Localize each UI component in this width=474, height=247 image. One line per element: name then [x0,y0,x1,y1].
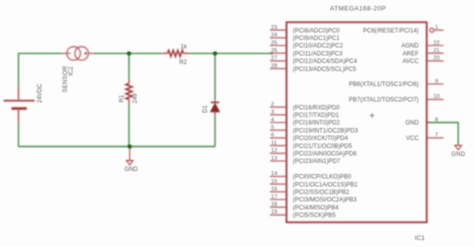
op-amp/IC U: ATMEGA168-20P IC1 body [287,22,427,222]
wire node B down to D1 cathode [214,53,216,100]
wire R2 to IC pin 26 (through node B) [190,52,273,54]
pin 17 (PCI3/MOSI/OC2A)PB3 [270,194,357,203]
svg-text:16: 16 [271,187,277,193]
svg-text:14: 14 [271,171,277,177]
svg-text:24VDC: 24VDC [38,83,44,103]
pin 14 (PCI0/ICP/CLKO)PB0 [270,171,352,180]
svg-text:ATMEGA168-20P: ATMEGA168-20P [330,6,386,13]
diode D1 [211,100,220,115]
pin 26 (PCI11/ADC3)PC3 [270,48,343,57]
svg-text:(PCI8/ADC0)PC0: (PCI8/ADC0)PC0 [293,28,340,34]
svg-text:(PCI13/ADC5/SCL)PC5: (PCI13/ADC5/SCL)PC5 [293,67,357,73]
part origin cross [370,113,374,117]
battery 24VDC [4,86,35,124]
svg-text:R2: R2 [179,60,187,66]
svg-text:(PCI17/TXD)PD1: (PCI17/TXD)PD1 [293,113,340,119]
svg-text:PB6(XTAL1/TOSC1/PCI6): PB6(XTAL1/TOSC1/PCI6) [349,82,419,88]
svg-text:GND: GND [405,121,419,127]
pin 25 (PCI10/ADC2)PC2 [270,40,344,49]
pin 6 (PCI20/XCK/T0)PD4 [270,133,349,142]
pin 7 VCC [406,133,443,142]
pin 28 (PCI13/ADC5/SCL)PC5 [270,63,357,72]
svg-text:19: 19 [271,210,277,216]
pin 18 (PCI4/MISO)PB4 [270,202,339,211]
svg-text:24: 24 [271,33,277,39]
pin 10 PB7(XTAL2/TOSC2/PCI7) [349,94,444,103]
svg-text:VCC: VCC [406,136,419,142]
svg-text:(PCI9/ADC1)PC1: (PCI9/ADC1)PC1 [293,36,340,42]
pin 21 AREF [403,48,444,57]
svg-text:11: 11 [271,140,277,146]
svg-text:(PCI23/AIN1)PD7: (PCI23/AIN1)PD7 [293,159,341,165]
wire battery+ to sensor- [19,53,62,86]
pin 15 (PCI1/OC1A/OC1S)PB1 [270,179,358,188]
svg-text:AREF: AREF [403,51,419,57]
svg-text:5: 5 [271,125,274,131]
resistor R1 [126,79,132,104]
pin 13 (PCI23/AIN1)PD7 [270,156,341,165]
svg-text:3: 3 [271,110,274,116]
svg-text:(PCI20/XCK/T0)PD4: (PCI20/XCK/T0)PD4 [293,136,349,142]
svg-text:GND: GND [124,167,138,173]
svg-text:(PCI2/SS/OC1B)PB2: (PCI2/SS/OC1B)PB2 [293,190,350,196]
pin 20 AVCC [402,56,443,65]
pin 11 (PCI21/T1/OC0B)PD5 [270,140,353,149]
svg-text:AGND: AGND [401,44,419,50]
wire R1 bottom to bottom rail [128,104,130,147]
svg-text:(PCI18/INT0)PD2: (PCI18/INT0)PD2 [293,121,341,127]
svg-text:10: 10 [433,94,439,100]
svg-text:249: 249 [133,93,139,104]
pin 9 PB6(XTAL1/TOSC1/PCI6) [349,79,444,88]
svg-text:7: 7 [435,133,438,139]
svg-text:17: 17 [271,194,277,200]
svg-text:27: 27 [271,56,277,62]
svg-text:(PCI10/ADC2)PC2: (PCI10/ADC2)PC2 [293,44,344,50]
svg-text:PB7(XTAL2/TOSC2/PCI7): PB7(XTAL2/TOSC2/PCI7) [349,98,419,104]
svg-text:26: 26 [271,48,277,54]
svg-text:PC6(/RESET/PCI14): PC6(/RESET/PCI14) [363,28,419,34]
svg-text:18: 18 [271,202,277,208]
svg-text:(PCI5/SCK)PB5: (PCI5/SCK)PB5 [293,213,336,219]
svg-text:IC1: IC1 [415,235,426,242]
pin 23 (PCI8/ADC0)PC0 [270,25,340,34]
pin 19 (PCI5/SCK)PB5 [270,210,336,219]
resistor R2 [162,50,190,56]
pin 2 (PCI16/RXD)PD0 [270,102,340,111]
svg-text:(PCI1/OC1A/OC1S)PB1: (PCI1/OC1A/OC1S)PB1 [293,182,358,188]
svg-text:13: 13 [271,156,277,162]
pin 5 (PCI19/INT1/OC2B)PD3 [270,125,359,134]
svg-text:1: 1 [435,25,438,31]
node B (junction D1/top rail) [213,51,217,55]
pin 1 PC6(/RESET/PCI14) [363,25,443,34]
svg-text:R1: R1 [119,94,125,102]
svg-text:20: 20 [433,56,439,62]
svg-text:2: 2 [271,102,274,108]
wire D1 anode down to bottom rail [214,115,216,147]
svg-text:4: 4 [271,117,274,123]
svg-text:23: 23 [271,25,277,31]
pin 4 (PCI18/INT0)PD2 [270,117,341,126]
svg-text:IC2: IC2 [69,66,75,76]
pin 27 (PCI12/ADC4/SDA)PC4 [270,56,358,65]
pin 24 (PCI9/ADC1)PC1 [270,33,340,42]
ground (IC pin 8 GND) [455,145,462,149]
sensor IC2 (current source, two overlapping circles) [62,47,94,61]
svg-text:(PCI19/INT1/OC2B)PD3: (PCI19/INT1/OC2B)PD3 [293,128,359,134]
svg-text:(PCI3/MOSI/OC2A)PB3: (PCI3/MOSI/OC2A)PB3 [293,198,357,204]
wire bottom rail [19,146,216,148]
pin 3 (PCI17/TXD)PD1 [270,110,340,119]
svg-text:6: 6 [271,133,274,139]
node C (junction GND/bottom rail) [128,144,132,148]
svg-text:9: 9 [435,79,438,85]
pin 22 AGND [401,40,443,49]
wire sensor+ to R2 (through node A) [94,52,163,54]
ground (bottom rail GND) [126,147,133,165]
svg-text:(PCI22/AIN0OC0A)PD6: (PCI22/AIN0OC0A)PD6 [293,152,357,158]
svg-text:(PCI0/ICP/CLKO)PB0: (PCI0/ICP/CLKO)PB0 [293,175,352,181]
svg-text:8: 8 [435,117,438,123]
pin 8 GND [405,117,438,126]
svg-text:(PCI12/ADC4/SDA)PC4: (PCI12/ADC4/SDA)PC4 [293,59,358,65]
wire battery- to bottom rail [18,124,20,147]
svg-text:25: 25 [271,40,277,46]
svg-text:21: 21 [433,48,439,54]
svg-text:(PCI16/RXD)PD0: (PCI16/RXD)PD0 [293,105,340,111]
svg-text:AVCC: AVCC [402,59,419,65]
svg-text:D1: D1 [203,105,209,113]
svg-text:15: 15 [271,179,277,185]
wire node A down to R1 top [128,53,130,79]
svg-text:(PCI4/MISO)PB4: (PCI4/MISO)PB4 [293,205,339,211]
svg-text:28: 28 [271,63,277,69]
pin 12 (PCI22/AIN0OC0A)PD6 [270,148,357,157]
node A (junction R1/top rail) [127,51,131,55]
svg-text:12: 12 [271,148,277,154]
pin 16 (PCI2/SS/OC1B)PB2 [270,187,350,196]
svg-text:(PCI11/ADC3)PC3: (PCI11/ADC3)PC3 [293,51,343,57]
svg-text:GND: GND [451,152,466,158]
svg-text:22: 22 [433,40,439,46]
svg-text:1k: 1k [181,45,188,51]
svg-text:(PCI21/T1/OC0B)PD5: (PCI21/T1/OC0B)PD5 [293,144,353,150]
wire IC pin 8 GND to ground symbol [427,123,459,146]
